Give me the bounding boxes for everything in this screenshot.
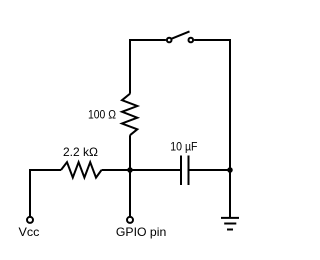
wire from 2.2k resistor right lead through center junction to capacitor left plate	[102, 169, 182, 171]
capacitor 10 uF	[181, 156, 189, 186]
wire from 100 ohm resistor top up and right to switch left terminal	[130, 40, 166, 94]
svg-text:2.2 kΩ: 2.2 kΩ	[63, 145, 98, 159]
wire from Vcc corner to 2.2k resistor left lead	[30, 170, 61, 217]
svg-text:10 µF: 10 µF	[170, 140, 197, 154]
wire from center junction down to GPIO pin terminal	[129, 170, 131, 217]
svg-text:Vcc: Vcc	[19, 225, 40, 239]
wire from right junction down to ground	[229, 170, 231, 218]
resistor 2.2 kohm (horizontal)	[61, 162, 102, 177]
resistor 100 ohm (vertical)	[122, 94, 137, 136]
switch SW1 (open SPST)	[167, 31, 193, 42]
svg-text:100 Ω: 100 Ω	[88, 107, 116, 121]
terminal Vcc (open circle)	[27, 217, 33, 223]
ground symbol	[221, 218, 239, 230]
junction dot at node A (2.2k / 100 ohm / capacitor / GPIO)	[127, 167, 133, 173]
wire from capacitor right plate to right junction	[189, 169, 231, 171]
svg-text:GPIO pin: GPIO pin	[116, 225, 166, 239]
terminal GPIO pin (open circle)	[127, 217, 133, 223]
wire from 100 ohm resistor bottom to center junction	[129, 135, 131, 170]
wire from switch right terminal to top-right corner and down to right rail	[194, 40, 230, 170]
junction dot at right rail / capacitor / ground	[227, 167, 233, 173]
